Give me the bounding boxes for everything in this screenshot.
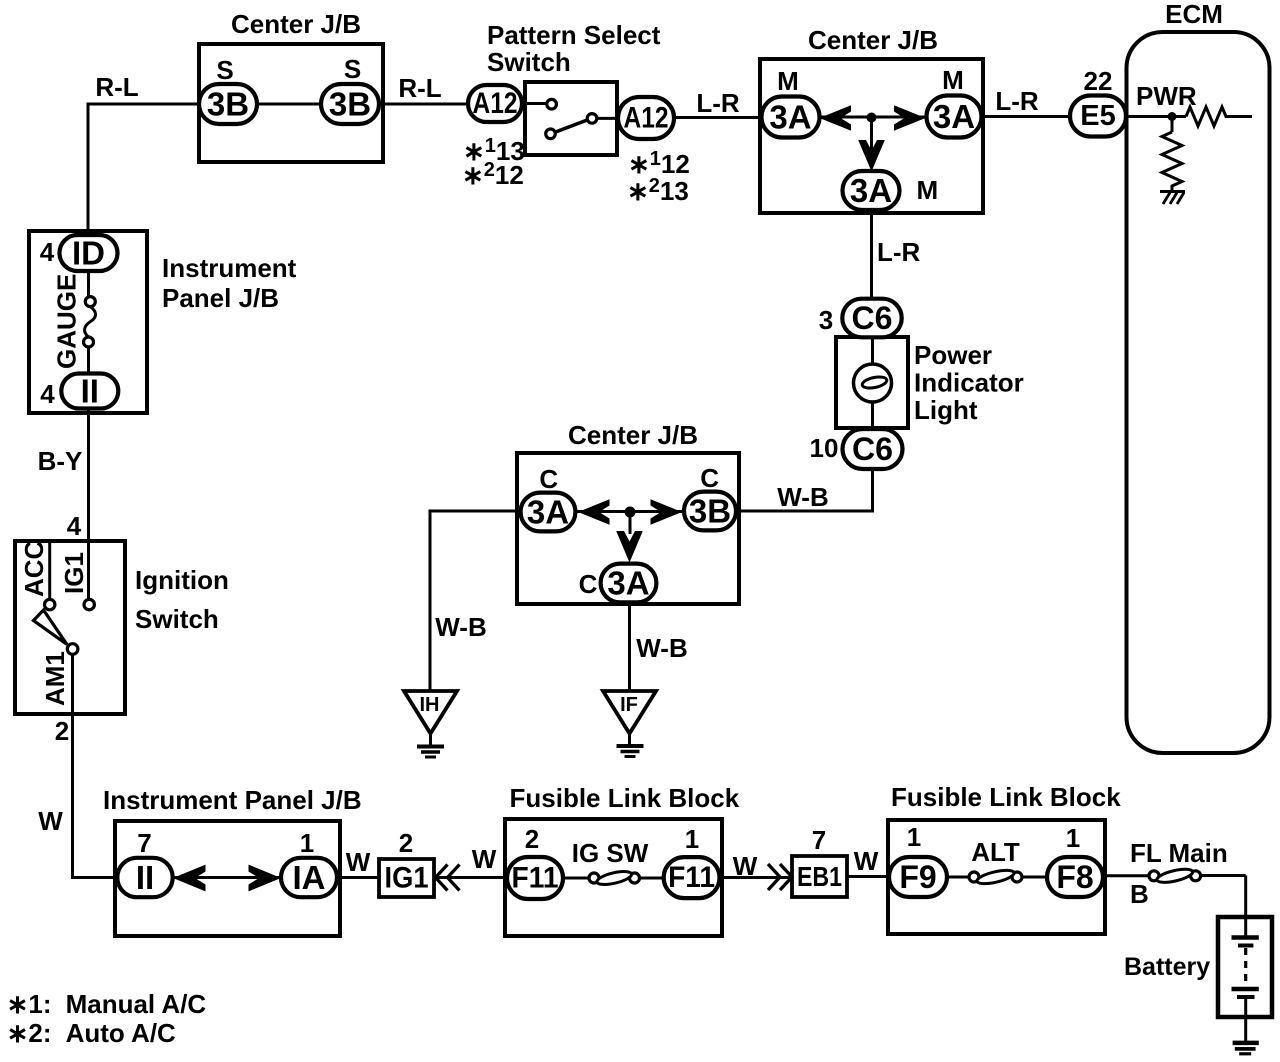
- svg-text:M: M: [917, 175, 939, 205]
- svg-text:F8: F8: [1056, 859, 1093, 895]
- svg-text:II: II: [136, 859, 154, 896]
- svg-text:Instrument Panel J/B: Instrument Panel J/B: [103, 785, 362, 815]
- svg-text:FL Main: FL Main: [1130, 838, 1228, 868]
- svg-text:F11: F11: [512, 862, 559, 895]
- svg-text:II: II: [81, 373, 99, 410]
- svg-text:∗212: ∗212: [462, 159, 524, 190]
- svg-text:W: W: [346, 847, 371, 877]
- svg-text:2: 2: [55, 716, 69, 746]
- svg-text:GAUGE: GAUGE: [52, 274, 82, 369]
- svg-text:C6: C6: [852, 431, 893, 467]
- svg-text:Auto A/C: Auto A/C: [66, 1018, 176, 1048]
- svg-text:C: C: [539, 464, 558, 494]
- svg-text:3A: 3A: [850, 172, 892, 209]
- svg-text:3A: 3A: [933, 98, 975, 135]
- svg-text:Center J/B: Center J/B: [808, 25, 938, 55]
- svg-text:Switch: Switch: [487, 47, 571, 77]
- svg-text:L-R: L-R: [696, 88, 740, 118]
- svg-text:F9: F9: [899, 859, 936, 895]
- svg-text:B-Y: B-Y: [38, 446, 83, 476]
- svg-text:Fusible Link Block: Fusible Link Block: [891, 782, 1121, 812]
- svg-text:Center J/B: Center J/B: [231, 9, 361, 39]
- svg-text:∗2:: ∗2:: [7, 1018, 52, 1048]
- svg-text:∗1:: ∗1:: [7, 989, 52, 1019]
- svg-text:IF: IF: [620, 694, 638, 716]
- svg-text:W: W: [38, 806, 63, 836]
- svg-text:W: W: [733, 851, 758, 881]
- svg-text:A12: A12: [473, 87, 518, 120]
- svg-text:Instrument: Instrument: [162, 253, 297, 283]
- svg-text:7: 7: [812, 825, 826, 855]
- svg-text:IG1: IG1: [59, 552, 89, 594]
- svg-text:W: W: [854, 846, 879, 876]
- svg-text:3A: 3A: [527, 494, 569, 531]
- svg-text:ACC: ACC: [19, 540, 49, 597]
- svg-text:7: 7: [137, 828, 151, 858]
- svg-text:Panel J/B: Panel J/B: [162, 283, 279, 313]
- svg-text:W: W: [472, 844, 497, 874]
- svg-text:W-B: W-B: [435, 612, 486, 642]
- svg-text:3A: 3A: [607, 565, 649, 602]
- svg-text:3B: 3B: [329, 86, 371, 123]
- svg-text:4: 4: [67, 511, 82, 541]
- svg-text:EB1: EB1: [797, 861, 842, 892]
- svg-text:S: S: [216, 55, 233, 85]
- svg-text:C: C: [579, 569, 598, 599]
- svg-text:M: M: [942, 65, 964, 95]
- svg-text:IH: IH: [420, 694, 440, 716]
- svg-text:W-B: W-B: [777, 482, 828, 512]
- svg-text:W-B: W-B: [636, 633, 687, 663]
- svg-text:F11: F11: [668, 861, 715, 894]
- svg-text:10: 10: [810, 433, 839, 463]
- svg-text:1: 1: [907, 822, 921, 852]
- svg-text:3B: 3B: [207, 86, 249, 123]
- svg-text:3B: 3B: [689, 493, 731, 530]
- svg-text:C: C: [700, 463, 719, 493]
- svg-text:Indicator: Indicator: [914, 368, 1024, 398]
- svg-text:R-L: R-L: [95, 72, 138, 102]
- svg-text:PWR: PWR: [1136, 81, 1197, 111]
- svg-text:ID: ID: [72, 235, 105, 272]
- svg-text:4: 4: [40, 379, 55, 409]
- svg-text:Light: Light: [914, 395, 978, 425]
- svg-text:IG SW: IG SW: [572, 838, 649, 868]
- svg-text:IA: IA: [293, 859, 326, 896]
- svg-text:Battery: Battery: [1124, 953, 1210, 981]
- svg-text:C6: C6: [852, 300, 893, 336]
- svg-text:1: 1: [685, 824, 699, 854]
- svg-text:S: S: [344, 54, 361, 84]
- svg-text:2: 2: [525, 824, 539, 854]
- svg-text:Ignition: Ignition: [135, 565, 229, 595]
- svg-text:3: 3: [819, 305, 833, 335]
- svg-text:4: 4: [40, 237, 55, 267]
- svg-text:Fusible Link Block: Fusible Link Block: [510, 783, 740, 813]
- svg-text:Manual A/C: Manual A/C: [66, 989, 207, 1019]
- svg-text:B: B: [1130, 879, 1149, 909]
- svg-text:L-R: L-R: [995, 86, 1039, 116]
- svg-text:1: 1: [300, 828, 314, 858]
- svg-text:ECM: ECM: [1165, 0, 1223, 29]
- svg-text:Power: Power: [914, 340, 992, 370]
- svg-text:AM1: AM1: [40, 651, 70, 706]
- svg-text:E5: E5: [1080, 100, 1115, 132]
- svg-text:Switch: Switch: [135, 604, 219, 634]
- svg-text:22: 22: [1084, 66, 1113, 96]
- svg-text:L-R: L-R: [877, 237, 921, 267]
- svg-text:M: M: [777, 66, 799, 96]
- svg-text:2: 2: [399, 828, 413, 858]
- svg-text:1: 1: [1066, 823, 1080, 853]
- svg-text:A12: A12: [624, 102, 669, 135]
- svg-text:∗213: ∗213: [627, 175, 689, 206]
- svg-text:Center J/B: Center J/B: [568, 420, 698, 450]
- svg-text:3A: 3A: [769, 99, 811, 136]
- svg-text:IG1: IG1: [385, 862, 429, 895]
- svg-text:Pattern Select: Pattern Select: [487, 20, 661, 50]
- svg-text:ALT: ALT: [971, 837, 1020, 867]
- svg-text:R-L: R-L: [398, 73, 441, 103]
